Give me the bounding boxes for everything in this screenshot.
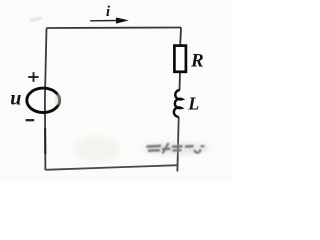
svg-text:R: R <box>190 51 204 72</box>
wire right (resistor to inductor) <box>179 72 182 91</box>
minus sign <box>26 119 35 121</box>
wire right (top segment into resistor) <box>179 28 182 46</box>
resistor R (rectangle) <box>174 46 186 72</box>
current arrow i <box>90 17 129 23</box>
watermark smudge <box>143 143 209 155</box>
wire left (darker lower segment) <box>44 128 46 154</box>
inductor L (coil) <box>174 90 182 117</box>
faint top-left smudge <box>30 18 42 22</box>
wire left <box>45 28 47 170</box>
wire right (inductor to bottom, slight overshoot) <box>177 117 178 172</box>
wire top <box>47 27 182 30</box>
svg-text:L: L <box>187 93 199 113</box>
plus sign <box>28 72 38 82</box>
voltage source u (ellipse) <box>27 88 60 112</box>
jpeg chroma artifact (green tinge at ellipse right) <box>55 94 61 106</box>
faint paper blotch <box>75 136 119 162</box>
wire bottom <box>45 165 177 170</box>
svg-text:i: i <box>106 4 110 20</box>
svg-text:u: u <box>10 88 21 110</box>
